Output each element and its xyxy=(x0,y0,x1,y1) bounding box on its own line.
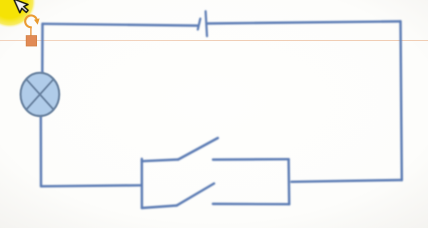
wire top-right xyxy=(208,21,401,23)
guide line xyxy=(0,39,428,41)
wire S1 left contact xyxy=(142,160,178,162)
switch S1 xyxy=(178,138,218,160)
node switch-right junction xyxy=(287,159,290,204)
battery B1 xyxy=(198,11,207,36)
wire bottom-right xyxy=(292,180,402,182)
rotation handle xyxy=(25,15,39,35)
cursor xyxy=(14,0,31,15)
wire right vertical xyxy=(401,21,402,180)
highlight xyxy=(0,0,36,28)
wire left vertical lower xyxy=(40,116,43,187)
wire top-left xyxy=(43,24,198,26)
wire left vertical upper xyxy=(41,24,44,74)
wire S1 right contact xyxy=(213,158,289,161)
wire S2 right contact xyxy=(213,203,289,206)
node switch-left junction xyxy=(141,159,144,208)
wire S2 left contact xyxy=(142,206,177,209)
selection handle xyxy=(26,36,36,46)
switch S2 xyxy=(177,184,214,206)
wire bottom-left xyxy=(41,185,142,186)
lamp L1 xyxy=(21,73,60,116)
